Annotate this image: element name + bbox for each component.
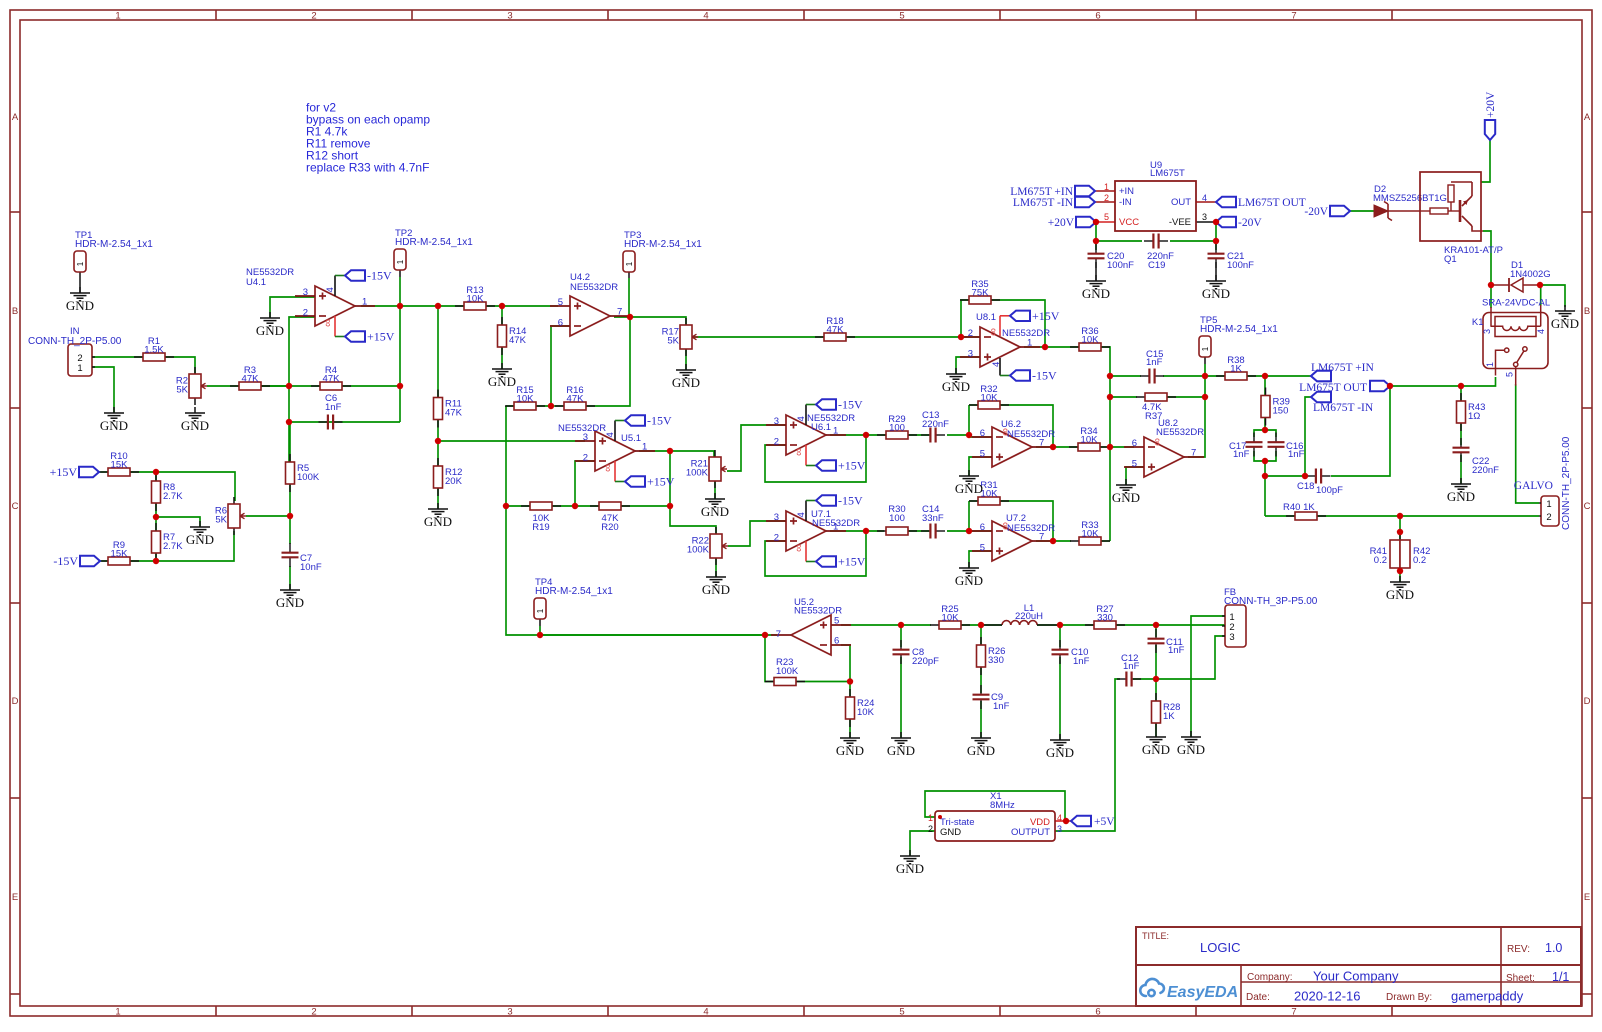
svg-text:Sheet:: Sheet: (1506, 973, 1535, 984)
svg-text:220pF: 220pF (912, 656, 939, 667)
svg-text:SRA-24VDC-AL: SRA-24VDC-AL (1482, 298, 1550, 309)
svg-text:100K: 100K (776, 666, 799, 677)
svg-text:U4.1: U4.1 (246, 277, 266, 288)
svg-text:3: 3 (1482, 329, 1492, 334)
svg-text:3: 3 (1229, 632, 1234, 643)
svg-text:6: 6 (980, 428, 985, 439)
svg-text:GND: GND (701, 504, 729, 519)
svg-text:HDR-M-2.54_1x1: HDR-M-2.54_1x1 (1200, 324, 1278, 335)
svg-text:GND: GND (836, 743, 864, 758)
svg-text:-15V: -15V (1032, 369, 1057, 383)
svg-text:10K: 10K (981, 489, 999, 500)
svg-text:1: 1 (1485, 362, 1495, 367)
svg-text:7: 7 (1191, 448, 1196, 459)
svg-text:GND: GND (100, 418, 128, 433)
svg-text:HDR-M-2.54_1x1: HDR-M-2.54_1x1 (395, 237, 473, 248)
svg-text:U6.1: U6.1 (811, 422, 831, 433)
svg-text:LM675T +IN: LM675T +IN (1311, 362, 1375, 374)
svg-text:+15V: +15V (838, 459, 866, 473)
svg-text:3: 3 (303, 287, 308, 298)
svg-text:3: 3 (968, 348, 973, 359)
svg-text:47K: 47K (323, 374, 341, 385)
svg-text:GND: GND (1386, 587, 1414, 602)
svg-text:NE5532DR: NE5532DR (794, 606, 842, 617)
svg-text:1: 1 (1546, 499, 1551, 510)
svg-text:+20V: +20V (1048, 217, 1075, 229)
svg-text:1: 1 (115, 11, 120, 22)
svg-text:replace R33 with 4.7nF: replace R33 with 4.7nF (306, 161, 429, 175)
svg-text:6: 6 (834, 636, 839, 647)
svg-text:5: 5 (899, 1007, 904, 1018)
svg-text:3: 3 (507, 1007, 512, 1018)
svg-text:5: 5 (1132, 458, 1137, 469)
svg-text:+15V: +15V (647, 475, 675, 489)
svg-text:Drawn By:: Drawn By: (1386, 992, 1432, 1003)
svg-text:+15V: +15V (50, 465, 78, 479)
svg-text:10K: 10K (981, 393, 999, 404)
svg-text:1N4002G: 1N4002G (1510, 269, 1551, 280)
svg-text:10K: 10K (942, 613, 960, 624)
svg-text:6: 6 (980, 522, 985, 533)
svg-text:10nF: 10nF (300, 562, 322, 573)
svg-text:2: 2 (774, 436, 779, 447)
svg-text:20K: 20K (445, 476, 463, 487)
svg-text:2.7K: 2.7K (163, 491, 183, 502)
svg-text:NE5532DR: NE5532DR (570, 282, 618, 293)
svg-text:+20V: +20V (1485, 91, 1497, 118)
svg-text:1K: 1K (1163, 711, 1175, 722)
svg-text:2: 2 (928, 824, 933, 834)
svg-text:+15V: +15V (367, 330, 395, 344)
svg-text:220nF: 220nF (922, 419, 949, 430)
svg-text:GND: GND (955, 481, 983, 496)
svg-text:1: 1 (1104, 182, 1109, 192)
svg-text:1: 1 (536, 608, 545, 613)
svg-text:GND: GND (1142, 742, 1170, 757)
svg-text:EasyEDA: EasyEDA (1167, 984, 1238, 1001)
svg-text:-20V: -20V (1238, 217, 1262, 229)
svg-text:MMSZ5256BT1G: MMSZ5256BT1G (1373, 193, 1447, 204)
svg-text:5: 5 (558, 297, 563, 308)
svg-text:-15V: -15V (647, 414, 672, 428)
svg-text:5K: 5K (215, 515, 227, 526)
svg-text:1K: 1K (1230, 364, 1242, 375)
svg-text:2: 2 (303, 307, 308, 318)
svg-text:OUTPUT: OUTPUT (1011, 827, 1050, 838)
svg-text:-IN: -IN (1119, 197, 1132, 208)
svg-text:4: 4 (703, 11, 708, 22)
svg-text:GND: GND (702, 582, 730, 597)
svg-text:CONN-TH_2P-P5.00: CONN-TH_2P-P5.00 (28, 336, 122, 347)
svg-text:1nF: 1nF (1146, 357, 1163, 368)
svg-text:GND: GND (488, 374, 516, 389)
svg-text:1: 1 (396, 259, 405, 264)
svg-text:47K: 47K (827, 325, 845, 336)
svg-text:1: 1 (115, 1007, 120, 1018)
svg-text:1: 1 (362, 297, 367, 308)
svg-text:100K: 100K (686, 468, 709, 479)
svg-text:100nF: 100nF (1107, 260, 1134, 271)
svg-text:LM675T: LM675T (1150, 168, 1185, 179)
svg-text:∞: ∞ (793, 544, 805, 552)
svg-text:LM675T -IN: LM675T -IN (1013, 197, 1074, 209)
svg-text:NE5532DR: NE5532DR (1156, 427, 1204, 438)
svg-text:GND: GND (66, 298, 94, 313)
svg-text:1: 1 (833, 426, 838, 437)
svg-text:10K: 10K (857, 707, 875, 718)
svg-text:B: B (1584, 306, 1590, 317)
svg-text:220nF: 220nF (1472, 465, 1499, 476)
svg-text:100nF: 100nF (1227, 260, 1254, 271)
svg-text:47K: 47K (242, 374, 260, 385)
svg-text:U8.1: U8.1 (976, 312, 996, 323)
svg-text:C: C (1584, 501, 1591, 512)
svg-text:Date:: Date: (1246, 992, 1270, 1003)
svg-text:10K: 10K (1082, 335, 1100, 346)
svg-text:5: 5 (1505, 372, 1515, 377)
svg-text:GND: GND (940, 827, 961, 838)
svg-text:8MHz: 8MHz (990, 800, 1015, 811)
svg-text:47K: 47K (567, 394, 585, 405)
svg-text:6: 6 (1095, 11, 1100, 22)
svg-text:0.2: 0.2 (1374, 555, 1387, 566)
svg-text:+15V: +15V (1032, 309, 1060, 323)
svg-text:0.2: 0.2 (1413, 555, 1426, 566)
svg-text:10K: 10K (1081, 435, 1099, 446)
svg-text:6: 6 (1095, 1007, 1100, 1018)
svg-text:HDR-M-2.54_1x1: HDR-M-2.54_1x1 (535, 586, 613, 597)
svg-text:10K: 10K (517, 394, 535, 405)
svg-text:1.0: 1.0 (1545, 941, 1562, 955)
svg-text:-15V: -15V (838, 398, 863, 412)
svg-text:-15V: -15V (367, 269, 392, 283)
svg-text:C18: C18 (1297, 481, 1314, 492)
svg-text:1: 1 (76, 261, 85, 266)
svg-text:47K: 47K (445, 408, 463, 419)
svg-text:6: 6 (558, 317, 563, 328)
svg-text:3: 3 (1202, 212, 1207, 222)
svg-text:HDR-M-2.54_1x1: HDR-M-2.54_1x1 (75, 239, 153, 250)
svg-text:+15V: +15V (838, 555, 866, 569)
svg-text:5: 5 (834, 616, 839, 627)
svg-text:Your Company: Your Company (1313, 969, 1399, 984)
svg-text:7: 7 (617, 307, 622, 318)
svg-text:GND: GND (1112, 490, 1140, 505)
svg-text:4: 4 (703, 1007, 708, 1018)
svg-text:∞: ∞ (793, 448, 805, 456)
svg-text:∞: ∞ (602, 464, 614, 472)
svg-text:VCC: VCC (1119, 217, 1139, 228)
svg-text:∞: ∞ (322, 319, 334, 327)
svg-text:1nF: 1nF (1233, 449, 1250, 460)
svg-text:6: 6 (1132, 438, 1137, 449)
svg-text:1nF: 1nF (325, 402, 342, 413)
svg-text:NE5532DR: NE5532DR (1002, 328, 1050, 339)
svg-text:2: 2 (311, 11, 316, 22)
svg-text:E: E (1584, 892, 1590, 903)
svg-text:100pF: 100pF (1316, 485, 1343, 496)
svg-text:2: 2 (1104, 193, 1109, 203)
svg-text:GND: GND (1046, 745, 1074, 760)
svg-text:GND: GND (1551, 316, 1579, 331)
svg-text:CONN-TH_2P-P5.00: CONN-TH_2P-P5.00 (1561, 436, 1572, 530)
svg-text:4: 4 (991, 362, 1002, 367)
svg-text:A: A (1584, 112, 1591, 123)
svg-text:GALVO: GALVO (1514, 480, 1553, 492)
svg-text:GND: GND (424, 514, 452, 529)
svg-text:5: 5 (980, 448, 985, 459)
svg-text:2: 2 (311, 1007, 316, 1018)
svg-text:U7.1: U7.1 (811, 509, 831, 520)
svg-text:C19: C19 (1148, 260, 1165, 271)
svg-text:2: 2 (1546, 512, 1551, 523)
svg-text:NE5532DR: NE5532DR (1007, 523, 1055, 534)
svg-text:D: D (12, 696, 19, 707)
svg-text:R40 1K: R40 1K (1283, 502, 1315, 513)
svg-text:1nF: 1nF (993, 701, 1010, 712)
svg-text:1nF: 1nF (1288, 449, 1305, 460)
svg-text:∞: ∞ (1152, 438, 1164, 446)
svg-text:1.5K: 1.5K (144, 345, 164, 356)
svg-text:LM675T OUT: LM675T OUT (1299, 382, 1367, 394)
svg-text:C: C (12, 501, 19, 512)
svg-text:GND: GND (1202, 286, 1230, 301)
svg-text:1nF: 1nF (1168, 645, 1185, 656)
svg-text:GND: GND (887, 743, 915, 758)
svg-text:REV:: REV: (1507, 944, 1530, 955)
svg-text:D: D (1584, 696, 1591, 707)
svg-text:47K: 47K (509, 335, 527, 346)
svg-text:gamerpaddy: gamerpaddy (1451, 989, 1524, 1004)
svg-text:4: 4 (796, 416, 807, 421)
svg-text:5: 5 (1104, 212, 1109, 222)
svg-text:7: 7 (776, 629, 781, 640)
svg-text:1/1: 1/1 (1552, 970, 1569, 984)
svg-text:7: 7 (1291, 1007, 1296, 1018)
svg-text:GND: GND (256, 323, 284, 338)
svg-text:5K: 5K (667, 336, 679, 347)
svg-text:4: 4 (605, 432, 616, 437)
svg-text:150: 150 (1273, 406, 1289, 417)
svg-text:10K: 10K (467, 294, 485, 305)
svg-text:TITLE:: TITLE: (1142, 931, 1169, 941)
svg-text:4: 4 (1536, 329, 1546, 334)
svg-text:4: 4 (796, 512, 807, 517)
svg-text:2: 2 (968, 328, 973, 339)
svg-text:R20: R20 (601, 522, 618, 533)
svg-text:1: 1 (1201, 346, 1210, 351)
svg-text:-15V: -15V (53, 554, 78, 568)
svg-text:U5.1: U5.1 (621, 433, 641, 444)
svg-text:GND: GND (186, 532, 214, 547)
svg-text:Q1: Q1 (1444, 254, 1457, 265)
svg-text:2020-12-16: 2020-12-16 (1294, 989, 1361, 1004)
svg-text:CONN-TH_3P-P5.00: CONN-TH_3P-P5.00 (1224, 596, 1318, 607)
svg-text:GND: GND (276, 595, 304, 610)
svg-text:K1: K1 (1472, 317, 1484, 328)
svg-text:-VEE: -VEE (1169, 217, 1191, 228)
svg-text:GND: GND (1447, 489, 1475, 504)
svg-text:330: 330 (988, 655, 1004, 666)
svg-text:4: 4 (1202, 193, 1207, 203)
svg-text:LM675T OUT: LM675T OUT (1238, 197, 1306, 209)
svg-text:GND: GND (896, 861, 924, 876)
svg-text:1: 1 (625, 261, 634, 266)
svg-text:1: 1 (77, 363, 82, 374)
svg-text:330: 330 (1097, 613, 1113, 624)
svg-text:2: 2 (583, 452, 588, 463)
svg-text:GND: GND (181, 418, 209, 433)
svg-text:1: 1 (1027, 338, 1032, 349)
svg-text:33nF: 33nF (922, 513, 944, 524)
svg-text:LM675T -IN: LM675T -IN (1313, 402, 1374, 414)
svg-text:LOGIC: LOGIC (1200, 940, 1240, 955)
svg-text:100K: 100K (297, 472, 320, 483)
svg-text:GND: GND (672, 375, 700, 390)
svg-text:3: 3 (774, 512, 779, 523)
svg-text:100: 100 (889, 423, 905, 434)
svg-text:100K: 100K (687, 545, 710, 556)
svg-text:1nF: 1nF (1073, 656, 1090, 667)
svg-text:15K: 15K (111, 549, 129, 560)
svg-text:A: A (12, 112, 19, 123)
svg-text:B: B (12, 306, 18, 317)
svg-text:E: E (12, 892, 18, 903)
svg-text:GND: GND (955, 573, 983, 588)
svg-text:1nF: 1nF (1123, 661, 1140, 672)
svg-text:GND: GND (942, 379, 970, 394)
svg-text:+IN: +IN (1119, 186, 1134, 197)
svg-text:4: 4 (325, 287, 336, 292)
svg-text:15K: 15K (111, 460, 129, 471)
svg-text:GND: GND (1177, 742, 1205, 757)
svg-text:1: 1 (928, 813, 933, 823)
svg-text:3: 3 (1057, 824, 1062, 834)
svg-text:HDR-M-2.54_1x1: HDR-M-2.54_1x1 (624, 239, 702, 250)
svg-text:100: 100 (889, 513, 905, 524)
svg-text:1Ω: 1Ω (1468, 411, 1480, 422)
svg-text:5: 5 (980, 542, 985, 553)
svg-text:GND: GND (967, 743, 995, 758)
svg-text:220uH: 220uH (1015, 611, 1043, 622)
svg-text:7: 7 (1291, 11, 1296, 22)
svg-text:5: 5 (899, 11, 904, 22)
svg-text:1: 1 (642, 442, 647, 453)
svg-text:2: 2 (774, 532, 779, 543)
svg-text:+5V: +5V (1094, 816, 1115, 828)
svg-text:-15V: -15V (838, 494, 863, 508)
svg-text:∞: ∞ (988, 328, 1000, 336)
svg-text:5K: 5K (176, 385, 188, 396)
svg-text:NE5532DR: NE5532DR (1007, 429, 1055, 440)
svg-text:10K: 10K (1082, 529, 1100, 540)
svg-text:3: 3 (507, 11, 512, 22)
svg-text:OUT: OUT (1171, 197, 1191, 208)
svg-text:R19: R19 (532, 522, 549, 533)
svg-text:Company:: Company: (1247, 972, 1293, 983)
svg-text:-20V: -20V (1304, 206, 1328, 218)
svg-text:2.7K: 2.7K (163, 541, 183, 552)
svg-text:75K: 75K (972, 288, 990, 299)
svg-text:4: 4 (1057, 813, 1062, 823)
svg-text:NE5532DR: NE5532DR (558, 423, 606, 434)
svg-text:3: 3 (774, 416, 779, 427)
svg-text:GND: GND (1082, 286, 1110, 301)
